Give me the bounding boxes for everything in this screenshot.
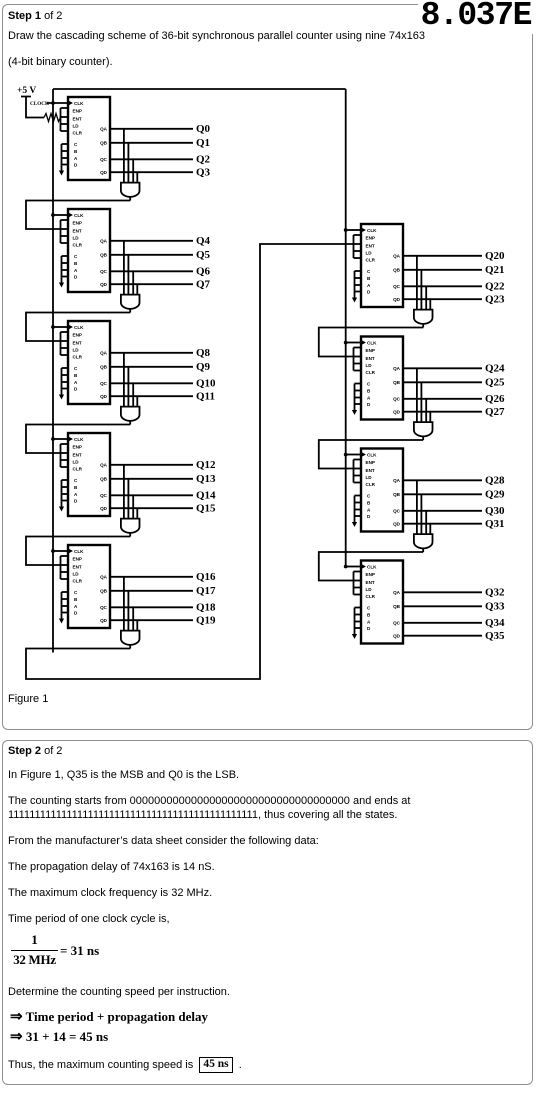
node: clock tap for rails [51, 101, 55, 105]
wire: clock to U6 CLK [346, 229, 361, 231]
svg-text:Q17: Q17 [196, 585, 216, 597]
svg-text:QD: QD [100, 282, 108, 287]
formula: 1 / 32 MHz = 31 ns [11, 932, 58, 948]
svg-text:QD: QD [393, 297, 401, 302]
svg-text:LD: LD [366, 475, 373, 480]
svg-text:QB: QB [100, 589, 108, 594]
svg-text:LD: LD [73, 571, 80, 576]
svg-text:CLK: CLK [74, 101, 84, 106]
counter U8 (74x163) [352, 449, 403, 532]
svg-text:QB: QB [393, 604, 401, 609]
svg-text:CLR: CLR [366, 370, 376, 375]
counter U5 (74x163) [59, 545, 110, 628]
wire: G6 carry to U7 enables [319, 328, 423, 357]
wire: CLOCK into U1 CLK [47, 102, 68, 104]
svg-text:Q33: Q33 [485, 601, 505, 613]
formula: 31 + 14 = 45 ns [10, 1027, 108, 1046]
resistor R1 (pull-up) [44, 114, 61, 122]
svg-text:+5 V: +5 V [17, 86, 36, 96]
wire: output Q35 [403, 635, 482, 637]
svg-text:CLK: CLK [74, 325, 84, 330]
wire: output Q27 [403, 411, 482, 413]
svg-text:CLK: CLK [367, 564, 377, 569]
counter U3 (74x163) [59, 321, 110, 404]
wire: output Q28 [403, 479, 482, 481]
svg-text:CLK: CLK [74, 437, 84, 442]
wire: output Q12 [110, 464, 193, 466]
svg-text:Q2: Q2 [196, 154, 211, 166]
svg-text:Q20: Q20 [485, 250, 505, 262]
svg-text:QC: QC [100, 157, 108, 162]
AND gate G7 (carry detect) [414, 368, 433, 440]
AND gate G2 (carry detect) [121, 241, 140, 313]
svg-text:QB: QB [100, 253, 108, 258]
svg-text:ENP: ENP [73, 108, 82, 113]
AND gate G1 (carry detect) [121, 129, 140, 201]
svg-text:Q34: Q34 [485, 617, 505, 629]
wire: G2 carry to U3 enables [26, 313, 130, 342]
wire: output Q24 [403, 367, 482, 369]
wire: output Q18 [110, 606, 193, 608]
svg-text:CLK: CLK [367, 340, 377, 345]
svg-text:QD: QD [100, 394, 108, 399]
svg-text:Q23: Q23 [485, 294, 505, 306]
wire: output Q2 [110, 158, 193, 160]
svg-text:ENT: ENT [366, 243, 375, 248]
svg-text:ENP: ENP [73, 556, 82, 561]
AND gate G4 (carry detect) [121, 465, 140, 537]
svg-text:ENT: ENT [366, 580, 375, 585]
svg-text:CLR: CLR [366, 257, 376, 262]
wire: output Q22 [403, 285, 482, 287]
node: clock junction at U7 [344, 341, 348, 345]
AND gate G8 (carry detect) [414, 480, 433, 552]
svg-text:Q24: Q24 [485, 363, 505, 375]
caption: Figure 1 [8, 693, 48, 706]
svg-text:ENP: ENP [366, 348, 375, 353]
svg-text:QB: QB [393, 380, 401, 385]
svg-text:QD: QD [100, 506, 108, 511]
svg-text:Q10: Q10 [196, 378, 216, 390]
counter U2 (74x163) [59, 209, 110, 292]
svg-text:QD: QD [393, 522, 401, 527]
svg-text:Q13: Q13 [196, 473, 216, 485]
svg-text:Q5: Q5 [196, 249, 211, 261]
svg-text:QA: QA [100, 127, 108, 132]
svg-text:Q22: Q22 [485, 281, 505, 293]
wire: output Q6 [110, 270, 193, 272]
svg-text:Q16: Q16 [196, 571, 216, 583]
wire: output Q30 [403, 510, 482, 512]
svg-text:QA: QA [100, 575, 108, 580]
svg-text:Q35: Q35 [485, 630, 505, 642]
svg-text:QC: QC [393, 284, 401, 289]
svg-text:Q3: Q3 [196, 167, 211, 179]
svg-text:CLR: CLR [366, 594, 376, 599]
svg-text:Q1: Q1 [196, 137, 210, 149]
svg-text:Q21: Q21 [485, 264, 505, 276]
svg-text:QC: QC [100, 269, 108, 274]
svg-text:QB: QB [100, 477, 108, 482]
counter U4 (74x163) [59, 433, 110, 516]
svg-text:QA: QA [100, 239, 108, 244]
svg-text:QD: QD [100, 170, 108, 175]
svg-text:Q9: Q9 [196, 361, 211, 373]
svg-text:Q6: Q6 [196, 266, 211, 278]
wire: output Q31 [403, 523, 482, 525]
wire: output Q11 [110, 395, 193, 397]
svg-text:Q18: Q18 [196, 602, 216, 614]
wire: output Q8 [110, 352, 193, 354]
svg-text:ENP: ENP [366, 572, 375, 577]
svg-text:QC: QC [393, 621, 401, 626]
wire: clock to U7 CLK [346, 342, 361, 344]
svg-text:QB: QB [393, 492, 401, 497]
svg-text:LD: LD [73, 235, 80, 240]
svg-text:ENT: ENT [73, 116, 82, 121]
node: clock junction at U8 [344, 453, 348, 457]
wire: output Q7 [110, 283, 193, 285]
svg-text:Q4: Q4 [196, 235, 211, 247]
wire: output Q13 [110, 478, 193, 480]
svg-text:Q7: Q7 [196, 279, 211, 291]
panel: Step 1 card [2, 4, 533, 730]
svg-text:ENP: ENP [366, 235, 375, 240]
wire: output Q0 [110, 128, 193, 130]
svg-text:CLK: CLK [74, 549, 84, 554]
svg-text:Q28: Q28 [485, 475, 505, 487]
svg-text:Q12: Q12 [196, 459, 216, 471]
heading: Step 2 of 2 [8, 745, 62, 758]
wire: clock to U8 CLK [346, 454, 361, 456]
svg-text:ENT: ENT [73, 340, 82, 345]
svg-text:ENP: ENP [73, 444, 82, 449]
svg-text:CLK: CLK [367, 452, 377, 457]
svg-text:ENP: ENP [366, 460, 375, 465]
wire: clock top rail to right column [53, 88, 346, 90]
svg-text:QA: QA [393, 366, 401, 371]
wire: output Q16 [110, 576, 193, 578]
svg-text:CLK: CLK [367, 228, 377, 233]
svg-text:CLR: CLR [73, 578, 83, 583]
wire: G4 carry to U5 enables [26, 537, 130, 566]
svg-text:Q11: Q11 [196, 391, 215, 403]
panel: Step 2 card [2, 740, 533, 1085]
AND gate G5 (carry detect) [121, 577, 140, 649]
wire: output Q32 [403, 591, 482, 593]
node: clock junction at U6 [344, 228, 348, 232]
wire: G5 carry across to U6 enables [26, 244, 354, 679]
wire: clock to U5 CLK [53, 550, 68, 552]
svg-text:Q27: Q27 [485, 406, 505, 418]
svg-text:CLR: CLR [73, 354, 83, 359]
svg-text:Q0: Q0 [196, 123, 211, 135]
heading: Step 1 of 2 [8, 10, 62, 23]
svg-text:QD: QD [393, 410, 401, 415]
wire: output Q34 [403, 622, 482, 624]
counter U9 (74x163) [352, 561, 403, 644]
svg-text:QC: QC [100, 605, 108, 610]
wire: resistor to U1 enable/load/clear ties [60, 117, 62, 119]
node: clock junction at U4 [51, 437, 55, 441]
wire: output Q15 [110, 507, 193, 509]
svg-text:QC: QC [393, 397, 401, 402]
wire: G7 carry to U8 enables [319, 440, 423, 469]
svg-text:QC: QC [100, 381, 108, 386]
wire: output Q20 [403, 255, 482, 257]
svg-text:ENT: ENT [73, 564, 82, 569]
node: clock junction at U5 [51, 549, 55, 553]
svg-text:LD: LD [73, 123, 80, 128]
wire: clock to U2 CLK [53, 214, 68, 216]
svg-text:Q31: Q31 [485, 518, 505, 530]
svg-text:CLR: CLR [366, 482, 376, 487]
svg-text:LD: LD [366, 363, 373, 368]
svg-text:LD: LD [73, 347, 80, 352]
svg-text:QB: QB [100, 141, 108, 146]
svg-text:Q14: Q14 [196, 490, 216, 502]
svg-text:ENP: ENP [73, 220, 82, 225]
svg-text:QA: QA [100, 351, 108, 356]
wire: output Q3 [110, 171, 193, 173]
counter U7 (74x163) [352, 337, 403, 420]
svg-text:QD: QD [393, 634, 401, 639]
wire: G1 carry to U2 enables [26, 201, 130, 230]
svg-text:ENT: ENT [73, 452, 82, 457]
wire: output Q1 [110, 142, 193, 144]
svg-text:QB: QB [393, 268, 401, 273]
wire: output Q9 [110, 366, 193, 368]
svg-text:QD: QD [100, 618, 108, 623]
wire: output Q10 [110, 382, 193, 384]
wire: output Q33 [403, 605, 482, 607]
wire: output Q14 [110, 494, 193, 496]
svg-text:Q8: Q8 [196, 347, 211, 359]
AND gate G6 (carry detect) [414, 256, 433, 328]
svg-text:QA: QA [393, 478, 401, 483]
node: clock junction at U9 [344, 565, 348, 569]
svg-text:CLR: CLR [73, 242, 83, 247]
wire: clock to U3 CLK [53, 326, 68, 328]
svg-text:QA: QA [393, 254, 401, 259]
svg-text:CLOCK: CLOCK [30, 101, 49, 107]
wire: G3 carry to U4 enables [26, 425, 130, 454]
svg-text:Q15: Q15 [196, 503, 216, 515]
svg-text:QA: QA [393, 590, 401, 595]
svg-text:Q25: Q25 [485, 377, 505, 389]
svg-text:QB: QB [100, 365, 108, 370]
AND gate G3 (carry detect) [121, 353, 140, 425]
svg-text:ENP: ENP [73, 332, 82, 337]
svg-text:Q32: Q32 [485, 587, 505, 599]
svg-text:CLR: CLR [73, 130, 83, 135]
+5 V power symbol [17, 86, 44, 118]
svg-text:QC: QC [100, 493, 108, 498]
svg-text:CLK: CLK [74, 213, 84, 218]
counter U1 (74x163) [59, 97, 110, 180]
node: clock junction at U3 [51, 325, 55, 329]
node: clock junction at U2 [51, 213, 55, 217]
wire: output Q17 [110, 590, 193, 592]
wire: output Q21 [403, 269, 482, 271]
wire: output Q5 [110, 254, 193, 256]
label: problem number 8.037E [418, 0, 534, 34]
svg-text:Q19: Q19 [196, 615, 216, 627]
svg-text:LD: LD [73, 459, 80, 464]
formula: time period + propagation delay [10, 1007, 208, 1026]
wire: output Q19 [110, 619, 193, 621]
wire: output Q4 [110, 240, 193, 242]
wire: clock rail left column [52, 89, 54, 653]
svg-text:Q26: Q26 [485, 393, 505, 405]
conclusion line with boxed answer [8, 1058, 242, 1074]
wire: clock to U9 CLK [346, 566, 361, 568]
svg-text:QA: QA [100, 463, 108, 468]
svg-text:LD: LD [366, 250, 373, 255]
svg-text:Q30: Q30 [485, 505, 505, 517]
wire: G8 carry to U9 enables [319, 552, 423, 581]
wire: clock rail right column [345, 89, 347, 567]
wire: output Q29 [403, 493, 482, 495]
svg-text:ENT: ENT [366, 468, 375, 473]
counter U6 (74x163) [352, 224, 403, 307]
svg-text:LD: LD [366, 587, 373, 592]
wire: output Q25 [403, 381, 482, 383]
svg-text:ENT: ENT [366, 356, 375, 361]
wire: clock to U4 CLK [53, 438, 68, 440]
svg-text:Q29: Q29 [485, 489, 505, 501]
wire: output Q26 [403, 398, 482, 400]
svg-text:QC: QC [393, 509, 401, 514]
svg-text:ENT: ENT [73, 228, 82, 233]
svg-text:CLR: CLR [73, 466, 83, 471]
wire: output Q23 [403, 298, 482, 300]
